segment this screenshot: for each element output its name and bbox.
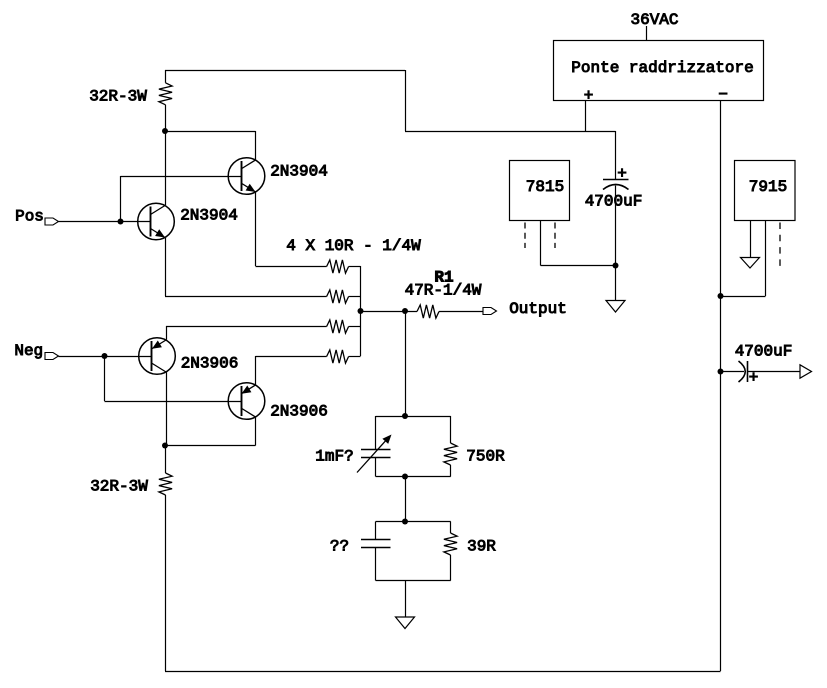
- svg-text:4700uF: 4700uF: [585, 193, 643, 211]
- svg-text:Ponte raddrizzatore: Ponte raddrizzatore: [571, 59, 753, 77]
- svg-text:36VAC: 36VAC: [630, 11, 678, 29]
- svg-text:+: +: [617, 165, 627, 183]
- svg-text:2N3906: 2N3906: [270, 403, 328, 421]
- svg-text:4 X 10R - 1/4W: 4 X 10R - 1/4W: [286, 237, 421, 255]
- svg-text:1mF?: 1mF?: [315, 448, 353, 466]
- svg-text:Pos: Pos: [15, 208, 44, 226]
- svg-text:2N3906: 2N3906: [181, 355, 239, 373]
- svg-text:2N3904: 2N3904: [270, 163, 328, 181]
- svg-text:32R-3W: 32R-3W: [89, 88, 147, 106]
- svg-text:4700uF: 4700uF: [735, 343, 793, 361]
- svg-text:??: ??: [330, 538, 349, 556]
- svg-text:+: +: [749, 369, 759, 387]
- svg-text:+: +: [584, 87, 594, 105]
- svg-text:32R-3W: 32R-3W: [90, 478, 148, 496]
- svg-text:7915: 7915: [749, 178, 787, 196]
- svg-text:Neg: Neg: [14, 342, 43, 360]
- svg-text:2N3904: 2N3904: [180, 207, 238, 225]
- svg-text:39R: 39R: [467, 538, 496, 556]
- svg-text:750R: 750R: [466, 448, 505, 466]
- svg-text:47R-1/4W: 47R-1/4W: [405, 282, 482, 300]
- svg-text:Output: Output: [509, 300, 567, 318]
- svg-text:−: −: [718, 86, 728, 104]
- svg-text:7815: 7815: [526, 178, 564, 196]
